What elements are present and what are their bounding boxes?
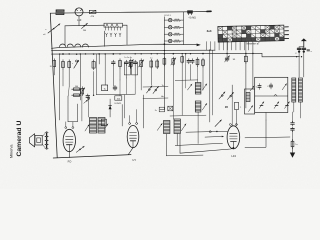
resistor R16 bbox=[196, 57, 199, 66]
arrow T5b bbox=[181, 124, 186, 131]
wire h80 bbox=[175, 79, 198, 82]
label under table bbox=[247, 43, 261, 46]
wire drop x122 bbox=[121, 105, 123, 127]
label V1 bbox=[68, 160, 72, 164]
wire bus B right bbox=[262, 53, 300, 56]
capacitor C8 bbox=[187, 59, 194, 64]
capacitor C6 bbox=[133, 60, 137, 65]
tube V1 UCL11 bbox=[63, 129, 75, 151]
wire ladder bottom bbox=[164, 43, 183, 45]
arrow T4a R bbox=[202, 84, 207, 90]
arrow T4b bbox=[202, 103, 207, 110]
resistor R10 var bbox=[139, 59, 144, 69]
tuning capacitors bbox=[256, 83, 290, 108]
wire bottom mid stub2 bbox=[166, 154, 203, 157]
resistor R18 bbox=[244, 54, 247, 63]
tube V3 UCH bbox=[227, 126, 240, 149]
box around C6 bbox=[132, 62, 138, 75]
IF can T4b bbox=[195, 101, 201, 112]
label R1 bbox=[90, 16, 94, 18]
arrow near V3 bbox=[215, 120, 222, 127]
capacitor C5 bbox=[125, 60, 129, 65]
tube V1 pins bbox=[65, 122, 74, 129]
svg-text:1u: 1u bbox=[150, 58, 152, 60]
switch S1 mains bbox=[45, 24, 60, 33]
lamp L10 dial bbox=[75, 8, 83, 16]
diode arrow node row bbox=[82, 23, 88, 28]
osc arrows bbox=[249, 86, 255, 112]
resistor R7 var bbox=[80, 87, 85, 96]
dropper coils bbox=[60, 44, 89, 47]
wire v182 bbox=[181, 63, 183, 115]
label U5LT bbox=[164, 15, 171, 17]
switch contact SA bbox=[74, 53, 79, 68]
oscillator box bbox=[245, 89, 255, 114]
IF can T1 bbox=[90, 118, 97, 134]
output transformer T3 bbox=[45, 132, 48, 150]
wire h87 bbox=[143, 85, 168, 87]
table drop wires bbox=[207, 42, 249, 50]
label V2 bbox=[132, 158, 136, 162]
resistor R19 bbox=[291, 139, 297, 148]
boxed 100 bbox=[115, 96, 122, 101]
speaker LS bbox=[29, 134, 42, 147]
box small X bbox=[168, 106, 173, 111]
IF can T2 bbox=[98, 118, 105, 134]
ground arrow bbox=[290, 148, 295, 158]
electro C2 bbox=[92, 53, 95, 96]
resistor R13 on rail bbox=[163, 53, 166, 66]
wire v235 to tube3 bbox=[231, 85, 233, 99]
label Camerad U bbox=[16, 121, 23, 157]
dot V3 bottom bbox=[233, 147, 235, 149]
switch arrows mid bbox=[147, 86, 159, 94]
wire v227 bbox=[226, 42, 228, 57]
svg-text:Minerva: Minerva bbox=[9, 144, 13, 158]
choke L1 hatched bbox=[56, 10, 64, 15]
label 3u3 bbox=[207, 29, 212, 33]
wire rail164 down bbox=[163, 44, 165, 110]
label L10 bbox=[77, 19, 82, 22]
label B bbox=[225, 107, 228, 109]
label Minerva bbox=[9, 144, 13, 158]
wire bus A bbox=[52, 49, 216, 52]
resistor R17 bbox=[202, 53, 205, 67]
RF coil L7 bbox=[292, 78, 296, 102]
wire v209 bbox=[209, 50, 211, 122]
wire v197 top bbox=[197, 66, 199, 83]
capacitor C10 bbox=[291, 121, 295, 126]
label 240 bbox=[83, 30, 87, 32]
wire v173 bbox=[172, 65, 174, 119]
wire h98 bbox=[143, 95, 168, 98]
svg-text:U·51.1: U·51.1 bbox=[164, 15, 171, 17]
arrow T4a L bbox=[188, 84, 193, 90]
voltage selector comb bbox=[104, 23, 123, 30]
wire T5b drop bbox=[176, 134, 178, 146]
wire V1 topcap bbox=[68, 96, 78, 122]
wire v252 bbox=[252, 42, 254, 89]
wire bottom bus bbox=[53, 155, 131, 158]
diode arrow 86 bbox=[84, 98, 90, 103]
wire coil drops bbox=[294, 77, 301, 118]
svg-text:2u: 2u bbox=[155, 110, 157, 112]
wire contact row bbox=[170, 114, 206, 117]
wire left vertical mains lead bbox=[50, 13, 57, 157]
wire v105 bbox=[105, 53, 106, 85]
svg-text:3u3: 3u3 bbox=[207, 29, 212, 33]
IF can T5a bbox=[164, 121, 170, 134]
resistor R8 bbox=[119, 59, 122, 69]
wire antenna split bbox=[299, 46, 304, 48]
wire v203 bbox=[202, 66, 204, 90]
wire V3 top leads bbox=[232, 99, 236, 126]
wire mid-left verticals bbox=[54, 54, 69, 120]
wire speaker leads bbox=[43, 133, 45, 147]
wire drop x99 bbox=[98, 53, 100, 64]
resistor R15 bbox=[181, 55, 184, 64]
label UCH11 bbox=[114, 103, 122, 105]
label 5.4k bbox=[188, 18, 196, 20]
svg-text:ε: ε bbox=[72, 63, 73, 65]
wire v292 up bbox=[292, 112, 294, 141]
wire antenna verticals bbox=[299, 52, 304, 77]
box around C5R9 bbox=[124, 62, 130, 75]
plug P1 bbox=[188, 11, 193, 15]
capacitor C3 bbox=[86, 94, 90, 99]
pilot lamp ladder bbox=[164, 12, 183, 45]
wire comb feed bbox=[104, 31, 106, 46]
svg-text:~: ~ bbox=[45, 27, 47, 31]
wire V2V3 bottom bbox=[180, 134, 233, 153]
svg-text:FO: FO bbox=[68, 160, 72, 164]
wire V2 cathode bbox=[128, 148, 133, 155]
osc coil bbox=[246, 93, 250, 102]
wire into V3 left1 bbox=[186, 131, 227, 133]
antenna bbox=[301, 38, 307, 46]
svg-text:1Ω: 1Ω bbox=[232, 59, 235, 61]
svg-text:Camerad U: Camerad U bbox=[16, 121, 23, 157]
band switch table bbox=[218, 25, 289, 42]
tuning divider bbox=[255, 95, 288, 97]
arrow T5a bbox=[157, 123, 162, 130]
wire top mains lead bbox=[50, 11, 208, 13]
svg-text:2B: 2B bbox=[225, 107, 228, 109]
wire into V3 left2 bbox=[205, 136, 224, 138]
resistor R1 mains bbox=[89, 10, 96, 13]
box grid bbox=[101, 119, 108, 129]
wire rail166 down bbox=[165, 134, 167, 156]
svg-text:UY: UY bbox=[132, 158, 136, 162]
wire drop x80 bbox=[79, 54, 81, 100]
wire v96 bbox=[95, 54, 97, 95]
labels bus row bbox=[124, 57, 132, 59]
capacitor C4 bbox=[112, 53, 116, 65]
wire bottom mid stub bbox=[175, 143, 222, 145]
resistor R12 bbox=[156, 59, 159, 69]
antenna trimmer mid bbox=[302, 47, 306, 53]
wire mid horizontal bbox=[97, 93, 136, 96]
svg-text:~5,4kΩ: ~5,4kΩ bbox=[188, 18, 196, 20]
trimmer near V1 bbox=[76, 146, 84, 152]
junction heater-rail bbox=[164, 43, 166, 45]
box above V3 bbox=[235, 102, 243, 109]
wire v212 bbox=[212, 50, 214, 115]
wire v190 bbox=[190, 65, 192, 81]
wire lamp L10 drop bbox=[78, 16, 80, 26]
wire v266 up bbox=[265, 113, 267, 121]
wire T4b drop bbox=[197, 112, 199, 144]
wire right-bottom h2 bbox=[245, 120, 266, 148]
diode D2 bbox=[109, 99, 112, 117]
capacitor C7 bbox=[113, 85, 117, 90]
resistor R5h bbox=[72, 86, 82, 91]
wire heater line bbox=[52, 44, 201, 49]
antenna trimmer left bbox=[297, 47, 301, 53]
svg-text:20: 20 bbox=[50, 66, 52, 68]
label V3 bbox=[231, 154, 236, 158]
resistor R11 bbox=[150, 58, 153, 69]
tuning gang box bbox=[255, 77, 288, 112]
wire mid verticals bbox=[113, 65, 151, 128]
wire bus B bbox=[52, 52, 263, 55]
wire right-bottom h1 bbox=[245, 136, 290, 139]
label mains bbox=[43, 34, 46, 36]
svg-text:1u 1u 4a: 1u 1u 4a bbox=[124, 57, 132, 59]
RF coil L8 bbox=[298, 78, 302, 102]
wire top lead end blob bbox=[207, 10, 211, 12]
resistor R6h bbox=[72, 94, 82, 97]
wire comb right drop bbox=[123, 25, 128, 45]
wire v121 ext bbox=[120, 76, 135, 96]
wire node drop bbox=[64, 26, 66, 46]
capacitor C11 bbox=[291, 127, 295, 132]
resistor R4 bbox=[68, 60, 73, 70]
bus junction dots bbox=[59, 50, 302, 58]
wire x68 up bbox=[82, 96, 88, 121]
wire v245 bbox=[245, 42, 247, 108]
voltage selector contacts bbox=[106, 33, 122, 37]
IF can T5b bbox=[174, 119, 180, 134]
resistor R9 var bbox=[128, 59, 133, 69]
tube V2 pins bbox=[129, 110, 138, 125]
capacitor C9 bbox=[225, 56, 230, 62]
IF can T4a bbox=[195, 83, 201, 95]
wire node row bbox=[65, 24, 105, 27]
resistor R2 bbox=[50, 59, 56, 69]
wire v185 bbox=[185, 53, 186, 88]
label 1ohm bbox=[232, 59, 235, 61]
switch arrows near V3 bbox=[219, 92, 234, 100]
tube V2 UY11 bbox=[127, 126, 139, 148]
svg-text:L43: L43 bbox=[231, 154, 236, 158]
svg-text:L10: L10 bbox=[77, 19, 82, 22]
svg-text:UCH11: UCH11 bbox=[114, 103, 122, 105]
cap tiny box bbox=[155, 107, 165, 112]
arrow T1 bbox=[85, 125, 89, 132]
tube V3 pins bbox=[229, 124, 237, 126]
resistor R14 bbox=[171, 53, 176, 66]
svg-text:1u: 1u bbox=[295, 144, 297, 146]
resistor R3 bbox=[62, 53, 65, 69]
label ant a4 bbox=[295, 53, 298, 55]
antenna small right bbox=[307, 50, 313, 53]
box TAST bbox=[102, 85, 108, 91]
svg-text:500: 500 bbox=[75, 86, 78, 88]
wire V1 cathode bbox=[68, 152, 70, 158]
